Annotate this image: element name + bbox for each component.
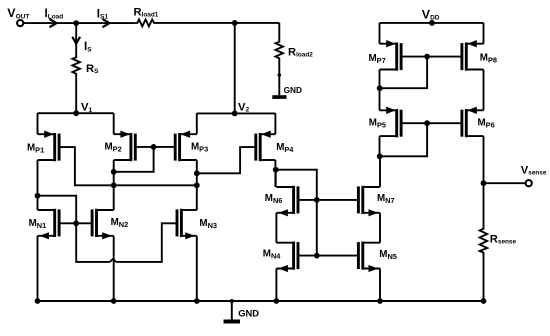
transistor MP3: [175, 131, 208, 162]
wire Rload1 to Rload2 top: [156, 22, 280, 24]
wire Vsense: [484, 182, 526, 184]
wire MN7 source to MN5 drain: [379, 213, 381, 243]
wire MN5 source to gnd: [379, 269, 381, 302]
wire gate jog to MN3: [76, 223, 177, 262]
wire ground bus: [38, 300, 484, 302]
transistor MN7: [358, 186, 394, 217]
wire VOUT to junction: [24, 22, 136, 24]
wire MP7 diode connection: [380, 57, 427, 89]
wire V1 to MP2 source: [113, 113, 115, 134]
wire VDD to MP7: [379, 23, 381, 44]
node MP7-MP8 gate junction: [424, 54, 430, 60]
resistor Rload1: [134, 7, 159, 27]
transistor MP8: [462, 40, 497, 71]
wire VDD rail: [380, 22, 484, 24]
node MN6-MN7 gate junction: [314, 197, 320, 203]
transistor MP4: [256, 131, 295, 162]
node MP2 drain junction: [111, 169, 117, 175]
wire V2 to MP4 source: [274, 113, 276, 134]
node gnd MN1: [35, 298, 41, 304]
wire Rload2 to gnd: [278, 60, 282, 95]
wire MP5 diode connection: [380, 123, 427, 156]
node MP2-MP3 gate junction: [151, 144, 157, 150]
wire MN1-MN2 gate line: [59, 222, 92, 224]
node Vsense junction: [481, 180, 487, 186]
wire MN1 diode connection: [38, 196, 77, 224]
wire MP1 drain to MN1 drain: [37, 160, 39, 210]
svg-text:GND: GND: [284, 85, 302, 95]
current arrow I_Load: [45, 7, 64, 27]
wire MN4-MN5 gate line: [298, 255, 358, 257]
node MP5 drain junction: [377, 153, 383, 159]
transistor MP1: [27, 131, 59, 162]
resistor Rsense: [480, 227, 517, 253]
wire MN2 source to gnd: [113, 236, 115, 301]
node gnd MN5: [377, 298, 383, 304]
node gnd Rsense: [481, 298, 487, 304]
current arrow I_S: [72, 23, 92, 55]
node MP7 drain junction: [377, 85, 383, 91]
wire MP2 diode connection: [114, 147, 154, 172]
wire MN1 source to gnd: [37, 236, 39, 301]
transistor MN1: [29, 209, 59, 240]
wire MP4 drain down: [274, 160, 276, 187]
svg-text:GND: GND: [238, 308, 259, 319]
transistor MP2: [105, 131, 136, 162]
wire MP5-MP6 gate line: [401, 122, 462, 124]
transistor MN4: [263, 242, 298, 273]
wire MP3 drain down: [196, 160, 198, 210]
wire RS to V1: [75, 76, 77, 114]
node gnd MN4: [274, 298, 280, 304]
resistor RS: [72, 56, 99, 76]
node MP4 drain junction: [273, 167, 279, 173]
wire V2 vertical: [234, 23, 236, 114]
wire MP7-MP8 gate line: [401, 56, 462, 58]
transistor MP5: [369, 107, 401, 138]
supply VDD: [422, 8, 440, 26]
transistor MN2: [92, 209, 128, 240]
node MP5-MP6 gate junction: [424, 120, 430, 126]
terminal Vsense: [521, 165, 547, 187]
terminal VOUT: [7, 6, 29, 26]
node gnd MN2: [111, 298, 117, 304]
transistor MN5: [358, 242, 397, 273]
node MP1gate-MP2drain junction: [111, 182, 117, 188]
wire MN6 source to MN4 drain: [275, 213, 277, 243]
wire MP4 gate to MP3 drain: [197, 147, 256, 173]
node MN4-MN5 gate junction: [314, 253, 320, 259]
wire MP8 drain to MP6: [483, 70, 485, 111]
node MP1gate-MP3drain junction: [194, 182, 200, 188]
wire MP7 drain down: [379, 70, 381, 111]
node junction Iload/Is: [73, 20, 79, 26]
ground GND bottom: [224, 299, 260, 324]
wire Rsense to gnd: [483, 253, 485, 301]
ground GND top: [272, 85, 302, 99]
node MP3 drain junction: [194, 170, 200, 176]
wire V2 rail: [197, 112, 276, 114]
transistor MN3: [177, 209, 217, 240]
wire V1 to MP1 source: [37, 113, 39, 134]
wire MN4 source to gnd: [275, 269, 277, 302]
node gnd MN3: [194, 298, 200, 304]
wire V1 rail: [38, 112, 114, 114]
node MN1 drain junction: [35, 193, 41, 199]
wire MN3 source to gnd: [196, 236, 198, 301]
wire MP4 drain to MN6 drain: [275, 170, 277, 187]
wire MP4 drain to MN7 gate column: [276, 170, 317, 256]
wire MN7 drain up: [379, 156, 381, 187]
wire MP5 drain down: [379, 136, 381, 156]
wire MP1 gate to mirror bus: [59, 147, 197, 185]
transistor MP7: [369, 40, 402, 71]
current arrow I_S1: [97, 7, 110, 27]
node junction top V2 drop: [232, 20, 238, 26]
node MN1-MN2 gate junction: [73, 220, 79, 226]
wire MP2 drain down: [113, 160, 115, 210]
node V2: [232, 101, 250, 116]
wire VDD to MP8: [483, 23, 485, 44]
wire MP6 drain down: [483, 136, 485, 227]
wire MN6-MN7 gate line: [298, 199, 358, 201]
resistor Rload2: [276, 23, 314, 60]
transistor MN6: [265, 186, 298, 217]
wire V2 to MP3 source: [196, 113, 198, 134]
wire MP2-MP3 gate line: [135, 146, 175, 148]
node V1: [73, 102, 92, 117]
transistor MP6: [462, 107, 495, 138]
